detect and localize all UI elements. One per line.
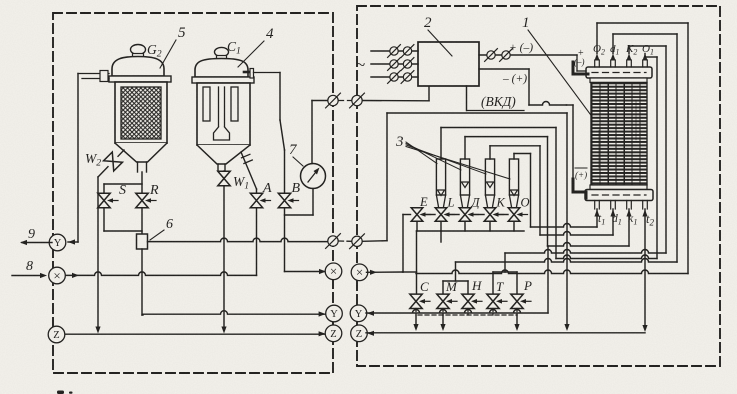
rotameter 4 body	[509, 159, 518, 208]
node Y left border of right box	[350, 305, 367, 322]
AC source symbol	[356, 55, 365, 74]
label t1 bottom	[598, 213, 605, 227]
vessel C1 electrode left	[203, 87, 210, 121]
label W2	[85, 151, 101, 169]
power input line 2	[371, 58, 418, 71]
label plus-minus	[509, 42, 533, 54]
right dashed boundary box	[357, 6, 720, 366]
slash node left border y=241	[326, 234, 341, 249]
valve E	[411, 208, 430, 222]
label 2	[424, 15, 452, 56]
drain arrow under C	[413, 315, 418, 331]
label K	[496, 196, 506, 210]
valve T	[487, 294, 507, 308]
vessel G2 body	[115, 82, 167, 143]
slash node right border y=101	[350, 93, 365, 108]
valve A	[250, 193, 270, 207]
valve O	[508, 208, 527, 222]
label 3	[395, 134, 510, 179]
wire gauge up to control line	[311, 101, 313, 164]
wire G2 gas to Y	[68, 74, 78, 245]
node Z left border of right box	[351, 325, 368, 342]
valve W2	[95, 150, 124, 334]
feed line to valve A	[65, 208, 256, 278]
Y collect line	[143, 311, 326, 317]
vessel G2 flange	[109, 76, 171, 82]
gauge 7	[301, 164, 326, 189]
label M	[445, 279, 458, 294]
stack plates body	[591, 83, 647, 186]
stack top outlet stub 2	[610, 34, 677, 67]
wire B to boundary x-circle	[285, 208, 327, 274]
slash node right border y=241	[350, 234, 365, 249]
label 6	[150, 217, 173, 240]
valve drop to bus	[489, 221, 491, 231]
stack top neck	[590, 78, 647, 83]
label R	[149, 183, 159, 198]
vessel G2 knob	[131, 45, 146, 58]
vessel C1 dome	[195, 59, 248, 78]
label B	[292, 181, 301, 196]
stack bottom inlet stub 1	[594, 201, 599, 217]
vessel C1 body	[197, 83, 250, 145]
vessel C1 cone bottom	[197, 145, 250, 171]
label O1 top	[642, 43, 654, 57]
vessel C1 electrode right	[231, 87, 238, 121]
label E	[419, 195, 428, 209]
label C1	[227, 39, 241, 57]
vessel C1 knob	[215, 47, 229, 59]
label W1	[233, 174, 249, 192]
stack bottom inlet stub 2	[610, 201, 615, 217]
valve drop to bus	[440, 221, 442, 231]
node X left boundary	[49, 267, 66, 284]
bottom stub drop K1	[628, 209, 630, 246]
rotameter 1 outlet loop	[441, 128, 657, 259]
stack tie rod 3	[598, 130, 600, 168]
rectifier output line 2	[479, 69, 573, 105]
label 7	[289, 142, 303, 166]
valve E drop	[416, 221, 418, 231]
valve drop to bus	[513, 221, 515, 231]
valve B	[278, 193, 298, 207]
label S	[119, 183, 126, 198]
stack bottom header	[585, 190, 653, 201]
label 4	[238, 26, 274, 67]
rectifier lead to lower terminal	[572, 105, 574, 179]
rotameter 2 body	[460, 159, 469, 208]
rotameter 3 float	[486, 182, 493, 188]
wire C1 nozzle down to B	[280, 73, 285, 194]
wire 6 down to Y line	[142, 249, 143, 315]
Z drain bus right box	[366, 331, 645, 336]
bottom stub drop d1	[612, 209, 614, 235]
dashes between slash nodes y=241	[339, 240, 351, 242]
valve M	[437, 294, 457, 308]
scan speck bottom edge	[57, 391, 73, 394]
valve R	[136, 193, 156, 207]
power input line 1	[371, 45, 418, 58]
sample line into manifold	[363, 113, 567, 241]
label C	[420, 279, 429, 294]
bottom stub drop t2 with arrow	[642, 209, 647, 332]
label A	[262, 181, 272, 196]
stack top outlet stub 1	[594, 23, 688, 67]
rotameter 1 float	[437, 190, 444, 196]
label O	[521, 196, 530, 210]
valve P	[511, 294, 531, 308]
stack lower terminal	[573, 168, 587, 198]
inlet header segment	[423, 214, 435, 216]
label N	[471, 278, 482, 293]
node Y right border of left box	[326, 305, 343, 322]
valve drop to bus	[464, 221, 466, 231]
label 1	[522, 15, 596, 122]
wire G2 drain upper	[141, 172, 143, 193]
stack tie rod 1	[608, 83, 610, 186]
rotameter 4 float	[510, 190, 517, 196]
valve C riser and bus y=273	[403, 23, 689, 294]
bracket over valves T P and bus y=253	[493, 46, 666, 294]
control unit 2	[418, 42, 479, 86]
stack bottom inlet stub 3	[626, 201, 631, 217]
valve C	[410, 294, 430, 308]
rectifier output line 1	[479, 49, 577, 62]
label K1 bottom	[628, 213, 638, 227]
bottom stub drop t1	[596, 209, 598, 227]
drain arrow under P	[514, 315, 519, 331]
drain arrow under M	[440, 315, 445, 331]
label D	[471, 196, 481, 210]
stack bottom inlet stub 4	[642, 201, 647, 217]
vessel G2 cone bottom	[115, 143, 167, 172]
stack top header	[586, 67, 652, 78]
vessel G2 left nozzle	[78, 71, 109, 82]
stack tie rod 4	[635, 100, 637, 140]
label 5	[160, 25, 186, 68]
wire gauge to B line	[285, 189, 314, 216]
stream 9 output arrow	[20, 227, 52, 245]
label G2	[147, 42, 162, 60]
stack top outlet stub 4	[642, 54, 657, 68]
rotameter 2 outlet loop	[465, 137, 629, 246]
label L	[447, 196, 455, 210]
wire R to element 6	[141, 208, 143, 234]
vessel G2 dome	[112, 57, 164, 77]
node Z left boundary	[48, 326, 65, 343]
node Y left boundary	[49, 234, 66, 251]
slash node left border y=101	[326, 93, 341, 108]
top bus right leg O1	[656, 57, 658, 259]
label P	[523, 278, 532, 293]
valve D	[459, 208, 478, 222]
node X left border of right box	[351, 264, 368, 281]
rotameter 3 outlet loop	[490, 146, 613, 235]
VKD measuring drop	[564, 113, 569, 331]
bypass with valve S	[98, 184, 142, 231]
sample line y=242 from element 6 to boundary	[148, 238, 328, 241]
rotameter 2 float	[461, 182, 468, 188]
vessel C1 flange	[192, 77, 254, 83]
inlet header segment	[447, 214, 459, 216]
label K2 top	[625, 43, 637, 57]
label d bottom	[612, 213, 622, 227]
Y return line right box	[366, 246, 548, 316]
valve K	[484, 208, 503, 222]
left dashed boundary box	[53, 13, 333, 373]
power input line 3	[371, 71, 418, 84]
dashed drain header under valves	[416, 309, 517, 316]
inlet header segment	[471, 214, 484, 216]
stream 8 input arrow	[12, 259, 47, 278]
stack top outlet stub 3	[626, 46, 666, 67]
label T	[496, 279, 504, 294]
node X right border of left box	[325, 263, 342, 280]
rotameter 3 body	[485, 159, 494, 208]
inlet header from X node	[367, 215, 411, 275]
rotameter 4 outlet loop	[514, 154, 597, 228]
control line y=100 gauge to unit 2	[312, 86, 429, 101]
valve W1	[218, 171, 230, 186]
vessel C1 central stem	[214, 87, 230, 140]
node Z right border of left box	[325, 325, 342, 342]
bracket over valves M N and bus y=262	[443, 34, 677, 294]
wire A to C1 cone	[241, 152, 257, 193]
inlet header segment	[496, 214, 508, 216]
label minus-plus	[502, 73, 527, 85]
valve N	[462, 294, 482, 308]
element 6 (orifice)	[137, 234, 148, 249]
scan noise overlay	[0, 0, 1, 1]
stack bottom neck	[590, 185, 647, 190]
vessel C1 right nozzle	[244, 69, 280, 79]
stack plus terminal	[573, 48, 588, 74]
label O2 top	[593, 43, 605, 57]
Z collect line	[65, 331, 326, 336]
label d1 top	[610, 43, 620, 57]
wire W1 drain	[221, 186, 226, 334]
valve L	[435, 208, 454, 222]
vessel G2 hatched packing	[121, 87, 161, 139]
label VKD	[467, 86, 525, 111]
rotameter 1 body	[436, 159, 445, 208]
stack tie rod 2	[624, 83, 626, 186]
rotameter drain bus	[417, 231, 525, 242]
label t2 bottom	[646, 212, 654, 228]
